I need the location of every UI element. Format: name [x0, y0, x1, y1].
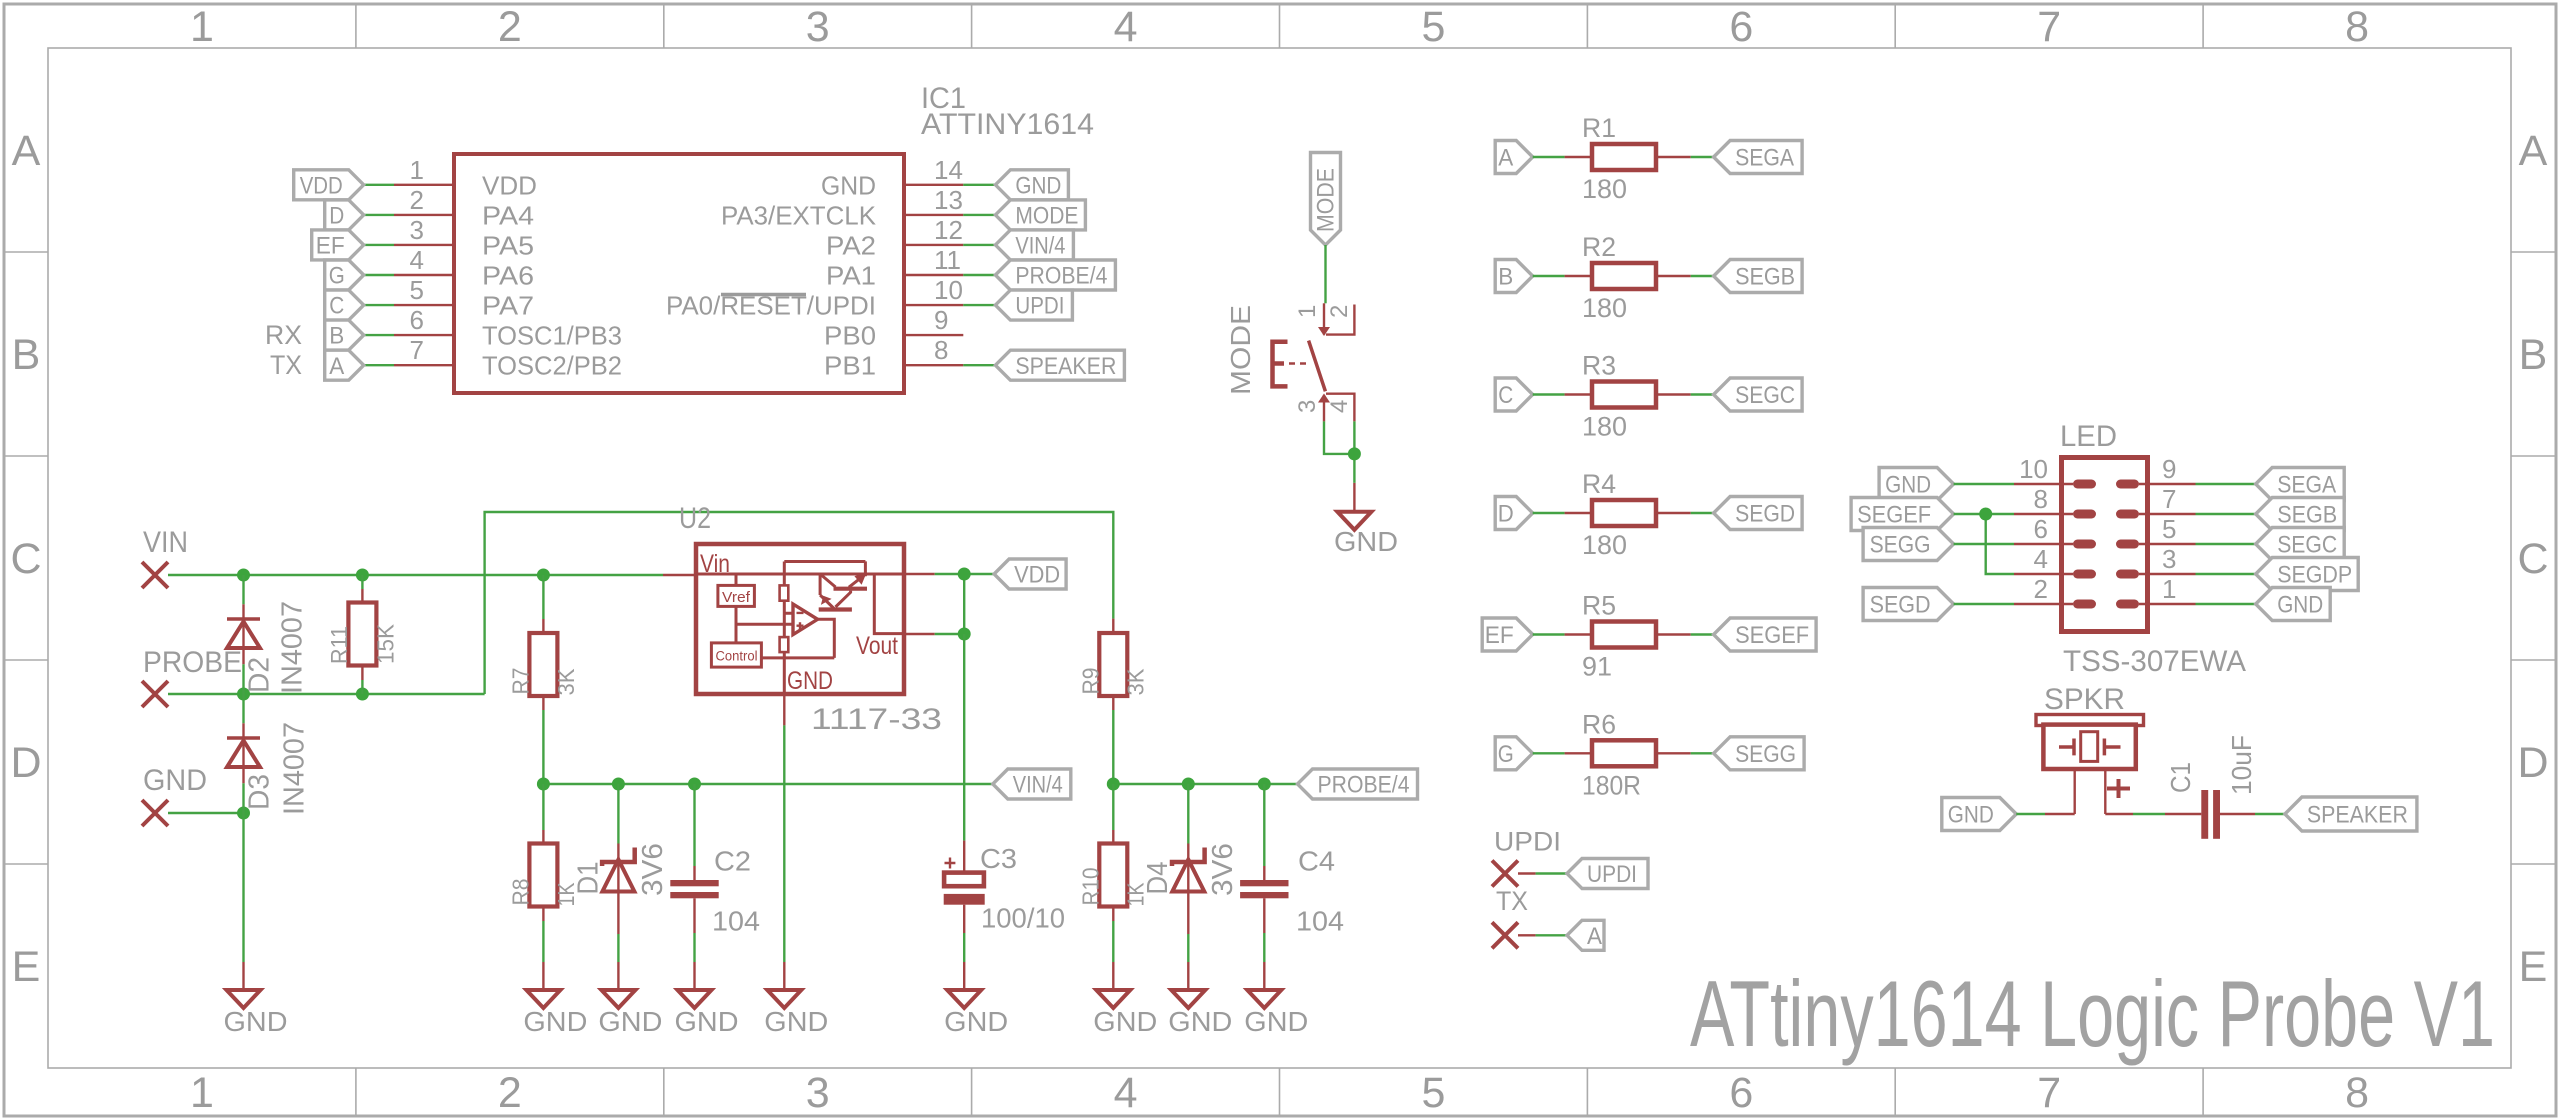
svg-text:3K: 3K — [553, 668, 579, 696]
flag PROBE/4 — [995, 260, 1115, 290]
zener diode D1 pins — [617, 784, 619, 844]
ground symbol (U2) — [767, 990, 801, 1008]
flag B (left of R2) — [1495, 260, 1533, 293]
svg-text:E: E — [2519, 943, 2548, 991]
speaker SPKR top bar — [2036, 715, 2144, 726]
resistor R11 — [348, 603, 376, 666]
svg-text:SEGA: SEGA — [2277, 472, 2336, 499]
svg-text:R11: R11 — [326, 626, 352, 664]
svg-text:D3: D3 — [244, 774, 276, 810]
svg-text:R5: R5 — [1582, 591, 1616, 621]
svg-text:R2: R2 — [1582, 232, 1616, 262]
IC1 RESET overline — [721, 293, 806, 297]
junction PROBE4/R9 — [1107, 778, 1120, 791]
svg-text:TOSC1/PB3: TOSC1/PB3 — [482, 321, 622, 351]
LED connector body — [2062, 458, 2148, 632]
flag UPDI — [995, 290, 1072, 320]
svg-text:D4: D4 — [1142, 862, 1174, 895]
U2 Vin pin wire — [663, 574, 696, 576]
junction PROBE4/D4 — [1182, 778, 1195, 791]
svg-text:14: 14 — [934, 155, 963, 185]
svg-text:180: 180 — [1582, 412, 1627, 442]
zener diode D4 pins — [1187, 784, 1189, 844]
wire R3 to SEGC — [1691, 393, 1714, 395]
svg-text:3: 3 — [1294, 400, 1321, 413]
svg-text:1: 1 — [1294, 305, 1321, 318]
junction PROBE/D2 — [237, 688, 250, 701]
flag VDD — [294, 170, 364, 200]
flag A (bottom) — [1567, 920, 1604, 950]
switch S1 pin 1 — [1323, 303, 1325, 334]
resistor R4 — [1565, 512, 1593, 514]
svg-text:3K: 3K — [1123, 668, 1149, 696]
flag A — [325, 350, 364, 380]
IC1 pin 3 (PA5) — [394, 244, 454, 246]
svg-text:GND: GND — [764, 1006, 828, 1037]
svg-text:GND: GND — [598, 1006, 662, 1037]
svg-text:VIN/4: VIN/4 — [1015, 233, 1065, 260]
LED pin 7 (right) — [2116, 510, 2139, 519]
svg-text:A: A — [12, 127, 41, 175]
ground symbol (input) — [227, 990, 261, 1008]
flag GND — [995, 170, 1068, 200]
wire LED pin 9 to SEGA — [2196, 483, 2256, 485]
flag EF (left of R5) — [1482, 618, 1533, 651]
switch S1 actuator lever — [1309, 341, 1326, 392]
svg-text:U2: U2 — [679, 502, 711, 535]
ground symbol below switch — [1337, 512, 1371, 530]
svg-text:8: 8 — [934, 335, 948, 365]
svg-text:5: 5 — [1421, 3, 1445, 51]
svg-text:6: 6 — [2034, 514, 2048, 544]
flag SEGD — [1714, 497, 1803, 530]
svg-text:R3: R3 — [1582, 351, 1616, 381]
svg-text:4: 4 — [410, 245, 424, 275]
U2 Control box — [711, 643, 761, 667]
junction VIN/R7 — [537, 569, 550, 582]
resistor R11 pins — [361, 575, 363, 589]
U2 internal Vin rail — [696, 574, 904, 634]
flag SEGDP (right of LED) — [2256, 558, 2359, 591]
wire R5 to SEGEF — [1691, 633, 1714, 635]
svg-text:G: G — [329, 263, 345, 290]
IC1 pin 10 (PA0/RESET/UPDI) — [904, 304, 963, 306]
capacitor C2 pins — [693, 784, 695, 866]
svg-text:GND: GND — [523, 1006, 587, 1037]
switch S1 dashed link — [1289, 362, 1308, 365]
wire D3 to bottom GND — [242, 813, 244, 962]
op-amp U1? no: IC1 body outline — [454, 154, 904, 393]
wire G to R6 — [1533, 752, 1565, 754]
capacitor C2 plates — [670, 880, 718, 886]
svg-text:GND: GND — [821, 170, 876, 200]
svg-text:180: 180 — [1582, 174, 1627, 204]
TX cross — [1492, 922, 1518, 948]
wire TX — [1518, 934, 1536, 936]
U2 op-amp — [793, 604, 818, 635]
IC1 pin 14 (GND) — [904, 184, 963, 186]
svg-text:UPDI: UPDI — [1015, 293, 1064, 320]
LED pin 4 (left) — [2014, 573, 2073, 575]
svg-text:VDD: VDD — [300, 172, 343, 199]
svg-text:C4: C4 — [1298, 845, 1335, 876]
LED pin 1 (right) — [2116, 600, 2139, 609]
resistor R8 pins — [542, 784, 544, 830]
svg-text:SEGEF: SEGEF — [1735, 622, 1809, 649]
wire stub to GND symbol — [1353, 483, 1355, 512]
svg-text:SPEAKER: SPEAKER — [1015, 353, 1116, 380]
speaker pin 2 (right) — [2104, 769, 2106, 814]
svg-text:8: 8 — [2345, 1069, 2369, 1117]
ground symbol (C3) — [947, 990, 981, 1008]
svg-text:SEGB: SEGB — [2277, 502, 2337, 529]
svg-text:6: 6 — [1729, 1069, 1753, 1117]
wire VDD vertical link — [963, 574, 965, 634]
wire net PROBE/4 from pin 11 — [963, 274, 995, 276]
LED pin 9 (right) — [2116, 480, 2139, 489]
capacitor C3 plates (polarized) — [944, 873, 984, 887]
svg-text:3: 3 — [806, 3, 830, 51]
wire PROBE loop up to R9 — [485, 512, 1114, 694]
svg-text:VIN: VIN — [143, 526, 188, 559]
svg-text:VDD: VDD — [482, 170, 537, 200]
wire LED pin 3 to SEGDP — [2196, 573, 2256, 575]
svg-text:RX: RX — [265, 320, 302, 350]
IC1 pin 11 (PA1) — [904, 274, 963, 276]
wire VIN/4 rail — [543, 783, 992, 785]
flag SEGA (right of LED) — [2256, 468, 2345, 501]
svg-text:PB0: PB0 — [824, 321, 876, 351]
speaker piezo element — [2081, 732, 2098, 762]
svg-text:GND: GND — [787, 667, 833, 695]
diode D2 (IN4007) — [227, 617, 260, 621]
resistor R3 — [1565, 393, 1593, 395]
wire C1 to SPEAKER flag — [2220, 813, 2255, 815]
U2 internal feedback lines — [784, 562, 865, 695]
flag SEGG (left of LED) — [1863, 528, 1954, 561]
svg-text:PA4: PA4 — [482, 200, 534, 230]
flag SEGB — [1714, 260, 1803, 293]
junction VIN/D2 — [237, 569, 250, 582]
svg-text:C3: C3 — [980, 843, 1017, 874]
flag SEGEF (left of LED) — [1851, 498, 1954, 531]
ground symbol (C4) — [1247, 990, 1281, 1008]
LED pin 8 (left) — [2014, 513, 2073, 515]
svg-text:A: A — [1498, 145, 1513, 172]
svg-text:SEGEF: SEGEF — [1857, 502, 1931, 529]
wire net D to pin 2 — [364, 214, 394, 216]
junction VDD lower — [958, 628, 971, 641]
PROBE input cross — [142, 681, 168, 707]
wire net MODE from pin 13 — [963, 214, 995, 216]
flag SPEAKER (bottom right) — [2285, 797, 2417, 831]
diode D2 pins — [242, 575, 244, 604]
capacitor C3 pins — [963, 634, 965, 841]
svg-text:R8: R8 — [508, 879, 534, 906]
wire net G to pin 4 — [364, 274, 394, 276]
wire D to R4 — [1533, 512, 1565, 514]
svg-text:4: 4 — [1114, 3, 1138, 51]
wire net C to pin 5 — [364, 304, 394, 306]
svg-text:SPKR: SPKR — [2044, 683, 2125, 716]
svg-text:7: 7 — [2037, 1069, 2061, 1117]
svg-text:UPDI: UPDI — [1494, 826, 1561, 856]
svg-text:6: 6 — [1729, 3, 1753, 51]
svg-text:3: 3 — [806, 1069, 830, 1117]
wire UPDI — [1518, 872, 1536, 874]
wire R1 to SEGA — [1691, 156, 1714, 158]
svg-text:LED: LED — [2060, 420, 2117, 453]
junction VIN4/R7 — [537, 778, 550, 791]
U2 internal links Vref/Control — [736, 574, 834, 658]
wire MODE flag to switch pin 1 — [1324, 245, 1326, 303]
svg-text:D: D — [2517, 739, 2548, 787]
ground symbol (D1) — [601, 990, 635, 1008]
wire SEGEF to LED pin 8 and pin 4 — [1954, 514, 2014, 574]
flag SEGC (right of LED) — [2256, 528, 2345, 561]
U2 internal divider resistors — [780, 585, 789, 600]
wire R4 to SEGD — [1691, 512, 1714, 514]
svg-text:GND: GND — [1885, 472, 1931, 499]
wire net UPDI from pin 10 — [963, 304, 995, 306]
svg-text:GND: GND — [675, 1006, 739, 1037]
resistor R5 — [1565, 633, 1593, 635]
switch S1 pin 3 — [1318, 394, 1330, 403]
diode D3 pins — [242, 694, 244, 723]
U2 Vout pin wires — [904, 573, 935, 575]
flag SEGA — [1714, 141, 1803, 174]
svg-text:SEGD: SEGD — [1735, 501, 1795, 528]
svg-text:TX: TX — [270, 350, 302, 380]
svg-text:TSS-307EWA: TSS-307EWA — [2063, 645, 2246, 678]
svg-text:2: 2 — [1326, 305, 1353, 318]
flag GND (right of LED) — [2256, 588, 2331, 621]
svg-text:PA3/EXTCLK: PA3/EXTCLK — [721, 200, 877, 230]
svg-text:B: B — [12, 331, 41, 379]
wire net VIN/4 from pin 12 — [963, 244, 995, 246]
resistor R10 — [1099, 844, 1127, 907]
svg-text:5: 5 — [2162, 514, 2176, 544]
wire C to R3 — [1533, 393, 1565, 395]
GND input cross — [142, 800, 168, 826]
svg-text:Vref: Vref — [722, 589, 751, 606]
U2 GND pin wire — [783, 694, 785, 725]
svg-text:2: 2 — [498, 1069, 522, 1117]
svg-text:ATtiny1614 Logic Probe V1: ATtiny1614 Logic Probe V1 — [1690, 961, 2495, 1066]
flag SEGC — [1714, 378, 1803, 411]
svg-text:PA2: PA2 — [826, 230, 876, 260]
LED pin 3 (right) — [2116, 570, 2139, 579]
IC1 pin 6 (TOSC1/PB3) — [394, 334, 454, 336]
svg-text:R7: R7 — [508, 668, 534, 695]
svg-text:15K: 15K — [372, 623, 398, 664]
resistor R2 — [1565, 275, 1593, 277]
svg-text:1: 1 — [2162, 574, 2176, 604]
svg-text:5: 5 — [410, 275, 424, 305]
flag MODE — [995, 200, 1085, 230]
wire R2 to SEGB — [1691, 275, 1714, 277]
svg-text:B: B — [2519, 331, 2548, 379]
zener diode D4 (3V6) — [1172, 848, 1205, 867]
zener diode D1 (3V6) — [602, 848, 635, 867]
flag B — [325, 320, 364, 350]
svg-text:TOSC2/PB2: TOSC2/PB2 — [482, 351, 622, 381]
frame ruler tick lines — [355, 4, 357, 1116]
flag G (left of R6) — [1495, 737, 1533, 770]
flag VIN/4 — [995, 230, 1073, 260]
svg-text:D: D — [1498, 501, 1514, 528]
flag D — [325, 200, 364, 230]
wire SEGG to LED pin 6 — [1954, 543, 2014, 545]
capacitor C1 plates — [2201, 790, 2208, 839]
svg-text:GND: GND — [224, 1006, 288, 1037]
svg-text:SEGC: SEGC — [2277, 532, 2337, 559]
wire PROBE/4 rail — [1113, 783, 1297, 785]
resistor R10 pins — [1112, 784, 1114, 830]
junction VIN4/D1 — [612, 778, 625, 791]
speaker plus mark — [2107, 779, 2130, 798]
wire GND to LED pin 10 — [1954, 483, 2014, 485]
svg-text:Vout: Vout — [856, 632, 898, 660]
switch S1 pin 4 — [1326, 394, 1354, 422]
IC1 pin 2 (PA4) — [394, 214, 454, 216]
junction PROBE/R11 — [356, 688, 369, 701]
svg-text:91: 91 — [1582, 652, 1612, 682]
svg-text:4: 4 — [1326, 400, 1353, 413]
IC1 pin 8 (PB1) — [904, 364, 963, 366]
svg-text:C: C — [329, 293, 344, 320]
flag UPDI (bottom) — [1567, 859, 1648, 889]
svg-text:7: 7 — [410, 335, 424, 365]
svg-text:GND: GND — [143, 764, 207, 797]
IC1 pin 13 (PA3/EXTCLK) — [904, 214, 963, 216]
svg-text:SPEAKER: SPEAKER — [2307, 802, 2408, 829]
svg-text:PB1: PB1 — [824, 351, 876, 381]
svg-text:PA6: PA6 — [482, 261, 534, 291]
svg-text:11: 11 — [934, 245, 961, 275]
flag SPEAKER — [995, 350, 1124, 380]
svg-text:A: A — [2519, 127, 2548, 175]
svg-text:100/10: 100/10 — [981, 903, 1065, 934]
svg-text:180R: 180R — [1582, 770, 1641, 800]
capacitor C3 plus mark — [945, 858, 956, 869]
svg-text:C: C — [1498, 382, 1513, 409]
wire EF to R5 — [1533, 633, 1565, 635]
svg-text:D2: D2 — [244, 657, 276, 693]
svg-text:A: A — [1587, 923, 1602, 950]
wire PROBE rail — [168, 693, 485, 695]
U2 op-amp output — [818, 619, 835, 658]
wire LED pin 5 to SEGC — [2196, 543, 2256, 545]
svg-text:10uF: 10uF — [2226, 735, 2257, 795]
svg-text:R4: R4 — [1582, 469, 1616, 499]
junction SEGEF — [1979, 508, 1992, 521]
flag PROBE/4 — [1298, 769, 1418, 799]
capacitor C4 plates — [1240, 880, 1288, 886]
flag GND (left of LED) — [1879, 468, 1954, 501]
svg-text:PA1: PA1 — [826, 261, 876, 291]
UPDI cross — [1492, 861, 1518, 887]
svg-text:GND: GND — [1168, 1006, 1232, 1037]
svg-text:SEGG: SEGG — [1870, 532, 1931, 559]
junction switch GND — [1348, 447, 1361, 460]
svg-text:A: A — [329, 353, 344, 380]
svg-text:GND: GND — [1015, 172, 1061, 199]
flag VDD — [994, 559, 1066, 589]
wire speaker pin 2 to C1 — [2105, 813, 2133, 815]
svg-text:GND: GND — [2277, 592, 2323, 619]
svg-text:VIN/4: VIN/4 — [1013, 772, 1063, 799]
svg-text:180: 180 — [1582, 530, 1627, 560]
svg-text:8: 8 — [2345, 3, 2369, 51]
ground symbol (C2) — [678, 990, 712, 1008]
svg-text:SEGC: SEGC — [1735, 382, 1795, 409]
svg-text:R1: R1 — [1582, 113, 1616, 143]
wire net EF to pin 3 — [364, 244, 394, 246]
flag G — [325, 260, 364, 290]
flag SEGEF — [1714, 618, 1817, 651]
flag SEGB (right of LED) — [2256, 498, 2345, 531]
svg-text:SEGD: SEGD — [1870, 592, 1931, 619]
resistor R1 — [1565, 156, 1593, 158]
U2 pass transistor Q (darlington) — [819, 589, 867, 610]
svg-text:7: 7 — [2037, 3, 2061, 51]
switch S1 button symbol — [1273, 342, 1288, 387]
svg-text:9: 9 — [934, 305, 948, 335]
svg-text:12: 12 — [934, 215, 963, 245]
svg-text:104: 104 — [1296, 906, 1344, 937]
svg-text:PA5: PA5 — [482, 230, 534, 260]
flag SEGG — [1714, 737, 1805, 770]
svg-text:6: 6 — [410, 305, 424, 335]
svg-text:3V6: 3V6 — [637, 843, 669, 896]
svg-text:PROBE: PROBE — [143, 646, 242, 679]
svg-text:VDD: VDD — [1014, 562, 1060, 589]
LED pin 5 (right) — [2116, 540, 2139, 549]
ground symbol (D4) — [1171, 990, 1205, 1008]
svg-text:8: 8 — [2034, 484, 2048, 514]
svg-text:SEGA: SEGA — [1735, 145, 1794, 172]
svg-text:SEGB: SEGB — [1735, 264, 1795, 291]
svg-text:180: 180 — [1582, 293, 1627, 323]
regulator U2 body — [696, 544, 904, 694]
svg-text:104: 104 — [712, 906, 760, 937]
VIN input cross — [142, 562, 168, 588]
svg-text:2: 2 — [2034, 574, 2048, 604]
svg-text:D1: D1 — [572, 862, 604, 895]
svg-text:SEGG: SEGG — [1735, 741, 1796, 768]
flag C — [325, 290, 364, 320]
svg-text:MODE: MODE — [1225, 305, 1256, 395]
svg-text:TX: TX — [1496, 886, 1528, 916]
svg-text:R9: R9 — [1078, 668, 1104, 695]
IC1 pin 4 (PA6) — [394, 274, 454, 276]
speaker SPKR body — [2043, 725, 2135, 769]
IC1 pin 5 (PA7) — [394, 304, 454, 306]
svg-text:R10: R10 — [1078, 868, 1104, 906]
junction VIN/R11 — [356, 569, 369, 582]
wire GND rail — [168, 812, 244, 814]
junction VDD upper — [958, 568, 971, 581]
speaker pin 1 (left) — [2073, 769, 2075, 814]
svg-text:9: 9 — [2162, 454, 2176, 484]
svg-text:B: B — [1498, 264, 1513, 291]
IC1 pin 12 (PA2) — [904, 244, 963, 246]
svg-text:3: 3 — [410, 215, 424, 245]
flag A (left of R1) — [1495, 141, 1533, 174]
svg-text:Control: Control — [716, 649, 758, 664]
resistor R7 pins — [542, 575, 544, 619]
